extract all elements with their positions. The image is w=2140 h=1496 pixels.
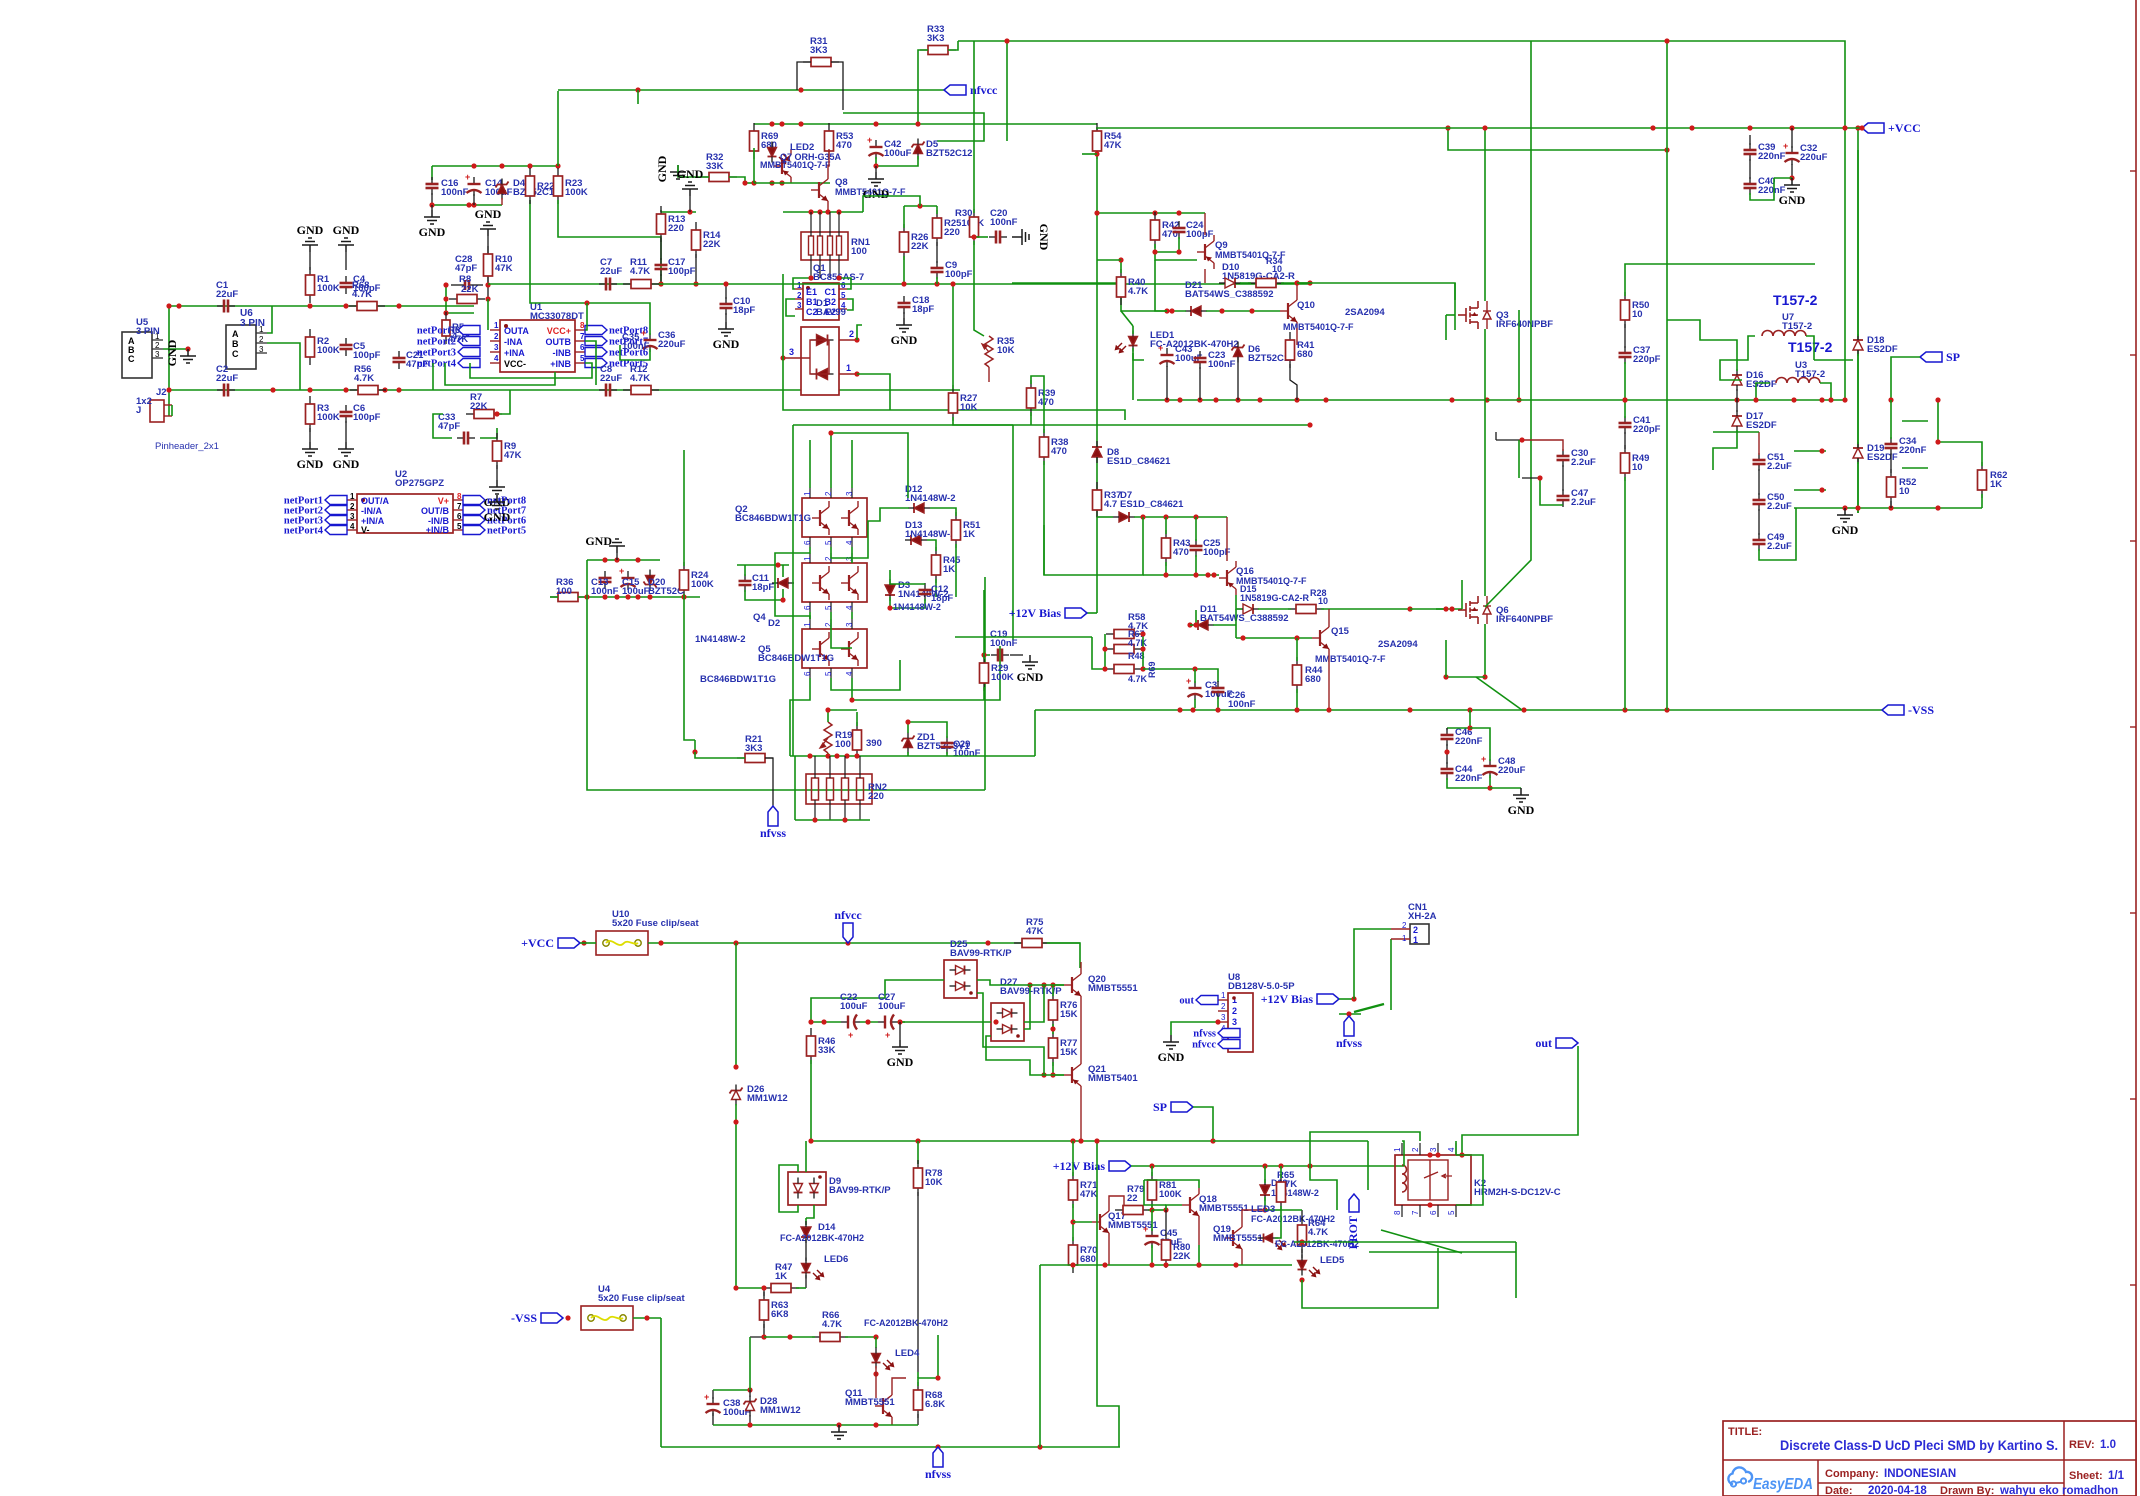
junction	[836, 275, 841, 280]
resistor R22	[526, 168, 535, 204]
wire	[1454, 283, 1456, 330]
label U2 pinno	[350, 502, 355, 511]
net nfvcc b	[834, 908, 862, 943]
svg-text:680: 680	[1297, 349, 1313, 360]
zener ZD1	[902, 733, 915, 754]
junction	[897, 1019, 902, 1024]
transistor Q19	[1225, 1221, 1242, 1255]
junction	[1164, 397, 1169, 402]
wire	[852, 646, 1000, 700]
capacitor C44	[1441, 762, 1454, 780]
label C10	[733, 296, 755, 316]
svg-text:PROT: PROT	[1346, 1216, 1360, 1249]
junction	[1094, 151, 1099, 156]
junction	[950, 281, 955, 286]
svg-text:390: 390	[866, 738, 882, 749]
ground	[484, 480, 511, 509]
junction	[849, 697, 854, 702]
resistor R68b	[914, 1382, 923, 1418]
diode D3	[885, 579, 895, 601]
wire	[1121, 311, 1133, 326]
label D6	[1248, 344, 1294, 364]
op-amp U2 pins	[347, 498, 463, 530]
capacitor C24	[1173, 221, 1186, 239]
junction	[1140, 514, 1145, 519]
label T157-2 big2	[1788, 339, 1833, 355]
svg-text:100K: 100K	[317, 412, 340, 423]
ground	[475, 207, 502, 236]
wire	[1237, 357, 1239, 400]
resistor R26	[900, 224, 909, 260]
wire	[1328, 655, 1330, 708]
svg-text:1K: 1K	[963, 529, 975, 540]
net nfvss u8	[1193, 1029, 1240, 1040]
label C20	[990, 208, 1018, 228]
svg-text:GND: GND	[333, 457, 360, 471]
label U1 pinno r	[580, 354, 585, 363]
wire	[1010, 654, 1023, 656]
junction	[1407, 606, 1412, 611]
svg-text:680: 680	[1080, 1254, 1096, 1265]
junction	[1102, 1262, 1107, 1267]
junction	[1819, 487, 1824, 492]
junction	[787, 1334, 792, 1339]
junction	[1294, 635, 1299, 640]
junction	[499, 163, 504, 168]
label Q8	[835, 177, 848, 188]
svg-text:OUTB: OUTB	[546, 337, 572, 347]
svg-text:GND: GND	[475, 207, 502, 221]
resistor R13	[657, 206, 666, 242]
wire	[860, 1021, 878, 1023]
svg-text:MMBT5401Q-7-F: MMBT5401Q-7-F	[1283, 322, 1354, 332]
resistor R14	[692, 222, 701, 258]
label R28	[1310, 588, 1327, 598]
wire	[1226, 517, 1228, 561]
wire	[1522, 440, 1563, 451]
label R1	[317, 274, 340, 294]
diode D9a	[794, 1178, 803, 1199]
wire	[725, 284, 727, 299]
label R45	[943, 555, 961, 575]
label R7	[470, 392, 488, 412]
net netPort2	[417, 337, 480, 348]
svg-text:470: 470	[1162, 229, 1178, 240]
wire	[1666, 41, 1668, 320]
resistor R78	[914, 1160, 923, 1196]
svg-text:6: 6	[1429, 1210, 1438, 1215]
inductor U7	[1762, 331, 1806, 337]
wire	[737, 564, 789, 566]
wire	[917, 1192, 919, 1372]
svg-text:4: 4	[845, 671, 854, 676]
junction	[1219, 308, 1224, 313]
wire	[1301, 1210, 1303, 1221]
wire	[1666, 320, 1668, 710]
wire	[973, 41, 975, 206]
junction	[1262, 1163, 1267, 1168]
svg-text:5: 5	[580, 354, 585, 363]
diode D29	[1260, 1179, 1270, 1201]
junction	[555, 163, 560, 168]
wire	[793, 278, 811, 289]
resistor R3	[306, 396, 315, 432]
label U1 pinno	[494, 343, 499, 352]
wire	[660, 210, 662, 212]
junction	[1935, 505, 1940, 510]
wire	[1213, 624, 1236, 626]
wire	[1143, 574, 1219, 576]
label C29	[953, 739, 981, 759]
wire	[775, 547, 810, 619]
svg-text:2: 2	[1413, 925, 1418, 935]
junction	[779, 121, 784, 126]
transistor Q2	[802, 498, 867, 537]
label R43	[1173, 538, 1190, 558]
label C7	[600, 257, 622, 277]
wire	[1258, 608, 1291, 610]
diode D8	[1092, 441, 1102, 463]
svg-text:MC33078DT: MC33078DT	[530, 311, 584, 322]
junction	[644, 1315, 649, 1320]
wire	[1121, 283, 1167, 311]
label U1 pinno	[494, 354, 499, 363]
led LED1	[1116, 331, 1138, 353]
capacitor C45	[1143, 1224, 1160, 1248]
resistor R36	[550, 593, 586, 602]
resistor R56	[350, 386, 386, 395]
label C14	[485, 178, 513, 198]
svg-text:BC846BDW1T1G: BC846BDW1T1G	[758, 653, 834, 664]
resistor R24	[680, 562, 689, 598]
label C19	[990, 629, 1018, 649]
resistor R65	[1277, 1174, 1286, 1210]
svg-text:100pF: 100pF	[668, 266, 696, 277]
transistor Q2b	[841, 501, 858, 535]
junction	[780, 355, 785, 360]
wire	[745, 590, 783, 600]
svg-text:GND: GND	[297, 457, 324, 471]
label C50	[1767, 492, 1792, 512]
junction	[873, 1334, 878, 1339]
transistor Q16	[1219, 561, 1236, 595]
svg-text:BZT52C12: BZT52C12	[926, 148, 972, 159]
connector J2	[150, 400, 172, 422]
svg-text:out: out	[1179, 996, 1194, 1007]
wire	[1354, 929, 1391, 999]
wire	[936, 242, 938, 263]
junction	[798, 121, 803, 126]
wire	[845, 1336, 876, 1338]
label R25v	[944, 227, 960, 238]
label R33	[927, 24, 944, 44]
svg-text:100: 100	[835, 739, 851, 750]
wire	[1476, 677, 1522, 710]
wire	[432, 363, 434, 390]
wire	[431, 193, 433, 205]
junction	[1102, 666, 1107, 671]
wire	[937, 1335, 939, 1378]
wire	[480, 428, 497, 438]
junction	[584, 594, 589, 599]
wire	[973, 206, 975, 213]
wire	[735, 1104, 737, 1288]
svg-text:2020-04-18: 2020-04-18	[1868, 1485, 1927, 1496]
led LED4	[872, 1348, 894, 1370]
label U2 V-	[361, 525, 370, 535]
resistor R46	[807, 1028, 816, 1064]
label D16	[1746, 370, 1777, 390]
wire	[1791, 164, 1793, 178]
junction	[747, 1387, 752, 1392]
diode D6	[1232, 342, 1245, 363]
svg-text:1: 1	[797, 281, 802, 290]
junction	[1734, 397, 1739, 402]
junction	[1789, 175, 1794, 180]
wire	[948, 41, 958, 50]
svg-text:1N4148W-2: 1N4148W-2	[905, 529, 956, 540]
svg-text:nfvss: nfvss	[760, 826, 786, 840]
wire	[1758, 469, 1760, 495]
label U10	[612, 909, 699, 929]
label R37	[1104, 490, 1121, 510]
svg-text:2: 2	[494, 332, 499, 341]
resistor R31	[803, 58, 839, 67]
svg-text:+: +	[1783, 141, 1788, 151]
label D10	[1222, 262, 1295, 282]
wire	[1938, 400, 1982, 466]
wire	[446, 285, 474, 313]
junction	[1004, 38, 1009, 43]
svg-text:47K: 47K	[1104, 140, 1122, 151]
label sheet val	[2108, 1470, 2125, 1482]
title text	[1780, 1438, 2058, 1453]
svg-text:+12V Bias: +12V Bias	[1009, 606, 1062, 620]
wire	[875, 1366, 877, 1398]
junction	[1187, 622, 1192, 627]
svg-text:100pF: 100pF	[1186, 229, 1214, 240]
label Q17	[1108, 1211, 1158, 1231]
junction	[1427, 1202, 1432, 1207]
label date val	[1868, 1485, 1927, 1496]
label C35	[622, 332, 650, 352]
label Q19	[1213, 1224, 1263, 1244]
wire	[1297, 282, 1310, 284]
wire	[1484, 128, 1486, 301]
label C46	[1455, 727, 1483, 747]
label C41	[1633, 415, 1661, 435]
svg-text:3 PIN: 3 PIN	[136, 326, 160, 337]
svg-text:100K: 100K	[317, 345, 340, 356]
junction	[635, 87, 640, 92]
wire	[977, 980, 1064, 985]
svg-text:100nF: 100nF	[990, 217, 1018, 228]
wire	[487, 277, 489, 299]
svg-text:2: 2	[1221, 1002, 1226, 1011]
junction	[1193, 572, 1198, 577]
wire	[1445, 640, 1447, 677]
svg-text:33K: 33K	[818, 1045, 836, 1056]
junction	[1351, 996, 1356, 1001]
junction	[1443, 674, 1448, 679]
wire	[1720, 336, 1755, 380]
wire	[1522, 477, 1540, 479]
net nfvss b	[925, 1447, 951, 1481]
label U1 pinno r	[580, 332, 585, 341]
wire	[1242, 1210, 1265, 1221]
label Q9	[1215, 240, 1228, 251]
wire	[729, 177, 745, 183]
net +12V Bias b	[1053, 1159, 1131, 1173]
junction	[733, 1064, 738, 1069]
label R56	[354, 364, 374, 384]
wire	[713, 1424, 918, 1426]
svg-text:8: 8	[457, 492, 462, 501]
resistor R8	[449, 295, 485, 304]
junction	[1622, 707, 1627, 712]
label RN1	[851, 237, 871, 257]
wire	[1624, 432, 1626, 449]
svg-text:GND: GND	[165, 339, 179, 366]
svg-text:6: 6	[803, 540, 812, 545]
label C2	[216, 364, 238, 384]
junction	[1240, 635, 1245, 640]
junction	[1213, 397, 1218, 402]
connector U6	[226, 325, 267, 369]
label LED3	[1251, 1204, 1275, 1215]
diode D20	[644, 570, 657, 591]
potentiometer R19	[820, 722, 832, 753]
label Q3	[1496, 310, 1553, 330]
wire	[1749, 159, 1751, 179]
svg-text:1: 1	[803, 556, 812, 561]
svg-text:22uF: 22uF	[600, 373, 622, 384]
junction	[466, 202, 471, 207]
capacitor C23	[1194, 351, 1207, 369]
junction	[808, 275, 813, 280]
svg-text:3K3: 3K3	[745, 743, 762, 754]
svg-text:GND: GND	[1508, 803, 1535, 817]
svg-text:GND: GND	[887, 1055, 914, 1069]
svg-text:7: 7	[580, 332, 585, 341]
diode D27	[991, 1003, 1024, 1041]
svg-text:47pF: 47pF	[455, 263, 477, 274]
svg-text:TITLE:: TITLE:	[1728, 1426, 1762, 1438]
wire	[1073, 1221, 1092, 1223]
wire	[1109, 1196, 1124, 1210]
diode D26	[730, 1085, 743, 1106]
label R31	[810, 36, 828, 56]
svg-text:C: C	[128, 354, 135, 364]
transistor Q7	[774, 149, 791, 183]
junction	[602, 594, 607, 599]
ground c20	[1012, 224, 1051, 251]
svg-text:BC846BDW1T1G: BC846BDW1T1G	[735, 513, 811, 524]
wire	[1301, 1249, 1303, 1258]
label R76	[1060, 1000, 1078, 1020]
junction	[1210, 1138, 1215, 1143]
capacitor C20	[989, 231, 1007, 244]
svg-text:1: 1	[1402, 934, 1407, 943]
wire	[953, 417, 1310, 425]
junction	[917, 203, 922, 208]
wire	[1310, 283, 1455, 300]
wire	[1624, 362, 1626, 418]
junction	[1747, 125, 1752, 130]
label U2 V+	[438, 496, 449, 506]
label Q1 p1	[797, 281, 802, 290]
svg-text:100nF: 100nF	[1208, 359, 1236, 370]
wire	[936, 206, 938, 214]
svg-text:MMBT5551: MMBT5551	[1088, 983, 1138, 994]
junction	[1070, 1262, 1075, 1267]
label C37	[1633, 345, 1661, 365]
resistor R33	[920, 46, 956, 55]
svg-text:BAT54WS_C388592: BAT54WS_C388592	[1185, 289, 1274, 300]
label R20	[866, 738, 882, 749]
svg-text:4.7K: 4.7K	[630, 373, 650, 384]
resistor R40	[1117, 269, 1126, 305]
wire	[695, 254, 697, 284]
junction	[693, 281, 698, 286]
wire	[1484, 400, 1486, 596]
svg-text:FC-A2012BK-470H2: FC-A2012BK-470H2	[864, 1318, 948, 1328]
label R65	[1277, 1170, 1297, 1190]
label C44	[1455, 764, 1483, 784]
svg-text:XH-2A: XH-2A	[1408, 911, 1437, 922]
junction	[1516, 397, 1521, 402]
junction	[865, 1019, 870, 1024]
wire	[892, 1378, 906, 1389]
label LED6	[824, 1254, 848, 1265]
wire	[851, 547, 853, 563]
svg-text:10: 10	[1318, 596, 1328, 606]
label C3	[1205, 680, 1233, 700]
junction	[1689, 125, 1694, 130]
wire	[1131, 1165, 1404, 1167]
wire	[1890, 501, 1892, 508]
wire	[983, 687, 985, 700]
capacitor C15	[619, 566, 636, 590]
wire	[1515, 1242, 1517, 1298]
wire	[831, 433, 908, 498]
wire	[986, 1036, 1064, 1075]
wire	[1035, 709, 1882, 711]
ground	[887, 1040, 914, 1069]
junction	[1537, 475, 1542, 480]
wire	[797, 62, 811, 90]
diode D4	[496, 179, 509, 200]
svg-text:2: 2	[259, 335, 264, 344]
svg-text:MMBT5551: MMBT5551	[1108, 1220, 1158, 1231]
wire	[917, 1141, 919, 1164]
wire	[1195, 517, 1197, 541]
junction	[1326, 707, 1331, 712]
junction	[985, 940, 990, 945]
wire	[694, 740, 696, 752]
ground	[863, 172, 890, 201]
label U3	[1795, 360, 1825, 380]
junction	[981, 652, 986, 657]
wire	[633, 1317, 661, 1319]
diode D25 dot	[969, 991, 973, 995]
label D1	[816, 298, 846, 318]
wire	[1518, 440, 1520, 478]
wire	[831, 612, 852, 648]
junction	[1193, 514, 1198, 519]
wire	[637, 90, 639, 104]
net netPort6 u2r	[463, 516, 526, 527]
